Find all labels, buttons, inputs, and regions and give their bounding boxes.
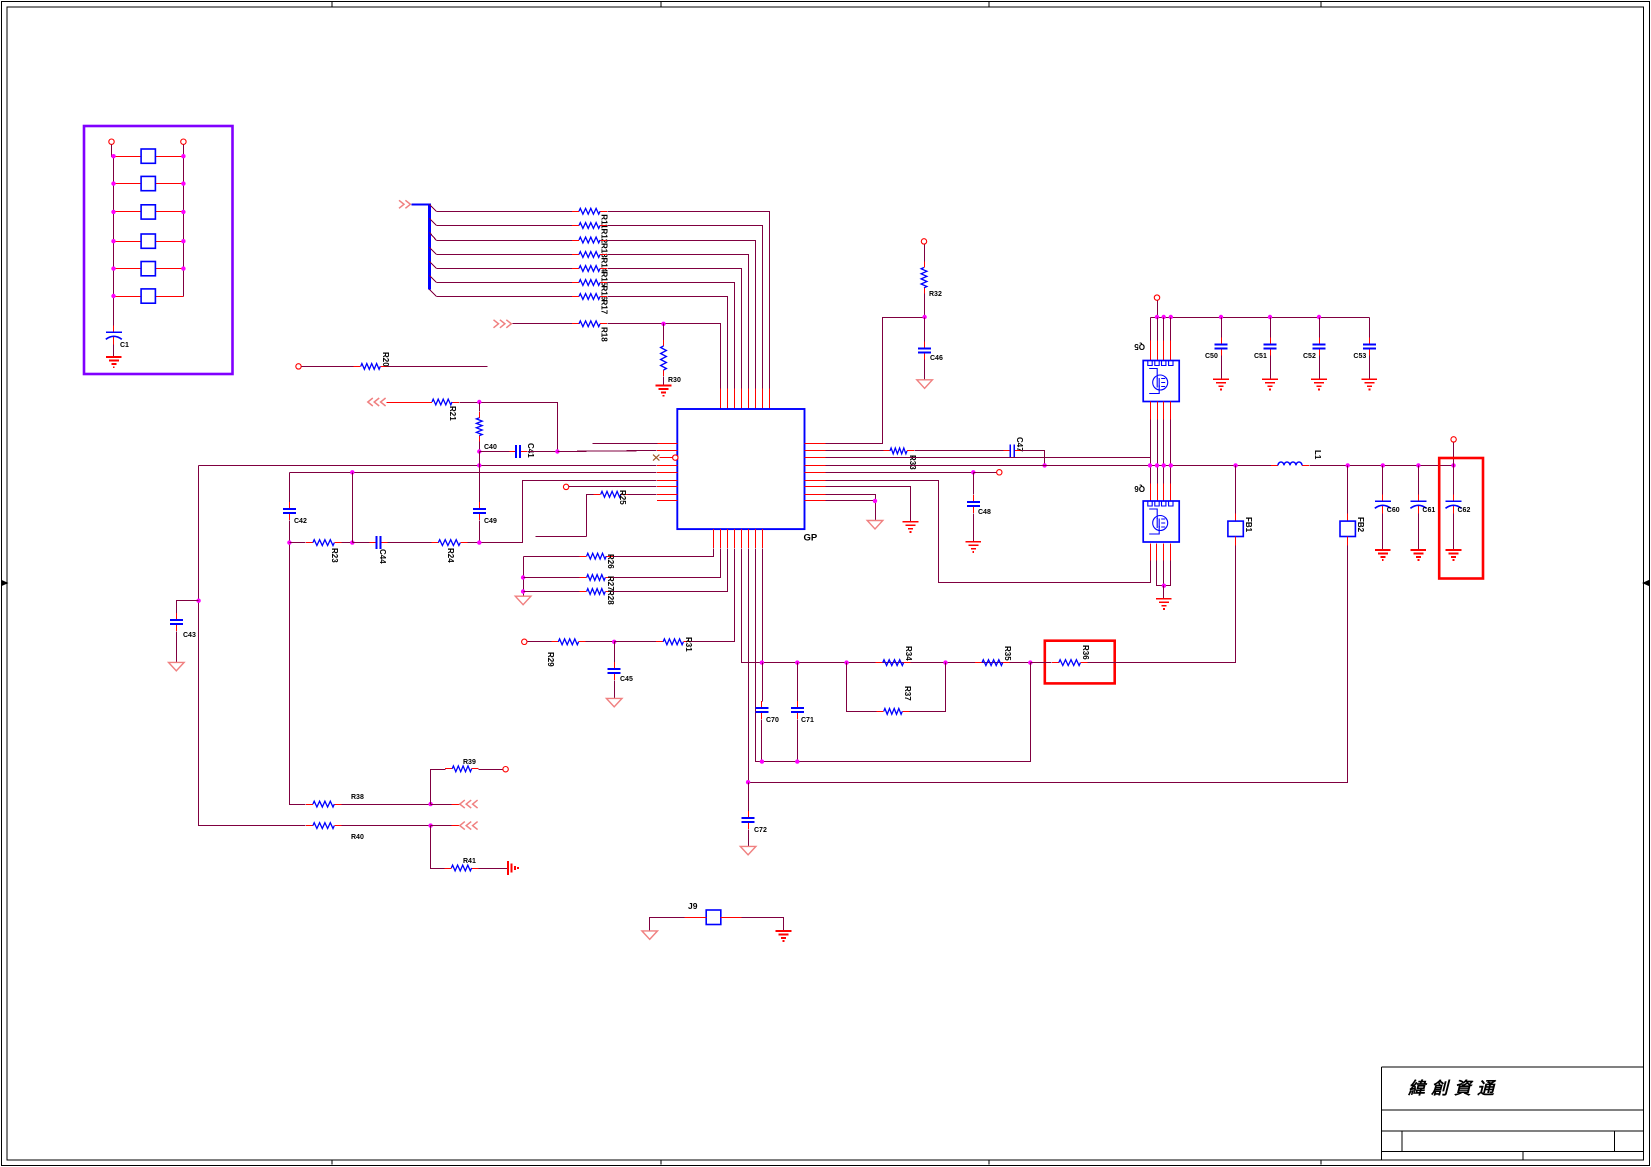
resistor R40 bbox=[306, 823, 341, 829]
svg-text:R11: R11 bbox=[600, 214, 609, 229]
wire Q5 col 1171 upper bbox=[1170, 318, 1172, 341]
svg-text:R20: R20 bbox=[381, 352, 390, 367]
ground rotated R41 bbox=[508, 861, 518, 875]
wire row825 chevron red bbox=[452, 825, 460, 827]
wire row472 to terminal bbox=[974, 472, 997, 474]
capacitor C60 (polarized) bbox=[1375, 494, 1391, 513]
purple highlight box bbox=[84, 126, 233, 374]
jumper pad J1-5 bbox=[141, 262, 155, 276]
wire ladder row 2 right bbox=[608, 226, 763, 389]
junction rail x1163 bbox=[1162, 315, 1166, 319]
wire row450 link bbox=[826, 450, 884, 452]
capacitor C72 bbox=[742, 811, 755, 829]
junction row543 left bbox=[287, 540, 291, 544]
wire rung 5 left red bbox=[114, 268, 142, 270]
wire loop left bbox=[847, 663, 877, 712]
wire x797 capup bbox=[797, 663, 799, 702]
port P1 chevrons >> bbox=[399, 200, 410, 208]
junction P2 row bbox=[661, 322, 665, 326]
wire ladder row 1 left bbox=[437, 211, 573, 213]
wire R39 to terminal bbox=[479, 769, 503, 771]
capacitor C41 (series) bbox=[509, 445, 527, 458]
wire Q5 col 1157 upper bbox=[1157, 318, 1159, 341]
jumper pad J1-3 bbox=[141, 205, 155, 219]
wire rung 4 left red bbox=[114, 241, 142, 243]
wire ladder row 5 left bbox=[437, 268, 573, 270]
wire Q6 gnd mid bbox=[1163, 561, 1165, 586]
terminal T3 bbox=[522, 639, 527, 644]
wire x748 lower bbox=[748, 783, 750, 812]
wire left column B lower bbox=[290, 521, 306, 805]
jumper pad J1-1 bbox=[141, 149, 155, 163]
capacitor C49 bbox=[473, 502, 486, 520]
wire row480R bbox=[826, 481, 1151, 583]
junction x924 bbox=[922, 315, 926, 319]
wire ladder row 1 pin stub bbox=[769, 389, 771, 410]
svg-text:J9: J9 bbox=[688, 901, 698, 911]
title block outline bbox=[1382, 1067, 1644, 1160]
svg-text:C1: C1 bbox=[120, 342, 129, 349]
wire loop right bbox=[910, 663, 946, 712]
junction row825 bbox=[428, 823, 432, 827]
wire bus PWR right bbox=[1310, 465, 1454, 467]
IC U1 bottom pin stubs bbox=[714, 529, 763, 548]
junction cap row left bbox=[477, 449, 481, 453]
wire Q5 col 1171 stub bbox=[1170, 341, 1172, 361]
wire rung 2 left red bbox=[114, 183, 142, 185]
resistor R28 bbox=[580, 589, 613, 595]
wire row472R bbox=[826, 472, 974, 474]
transistor Q5 bbox=[1143, 361, 1179, 402]
wire rail cap 4 drop bbox=[1369, 318, 1371, 338]
svg-text:R24: R24 bbox=[446, 548, 455, 563]
wire row494 to chip bbox=[628, 494, 657, 496]
wire row641 mid2 bbox=[615, 641, 657, 643]
wire Q6 in 1157 stub bbox=[1157, 484, 1159, 502]
wire rung 2 right red bbox=[156, 183, 184, 185]
svg-text:C43: C43 bbox=[183, 632, 196, 639]
wire row543 mid1 bbox=[342, 542, 353, 544]
capacitor C48 bbox=[967, 495, 980, 513]
wire Q6 in 1164 stub bbox=[1163, 484, 1165, 502]
wire P3 red lead bbox=[387, 402, 426, 404]
resistor R16 bbox=[572, 280, 607, 286]
ground pcap 2 bbox=[1446, 550, 1462, 560]
svg-text:R15: R15 bbox=[600, 272, 609, 287]
wire J9 right stub bbox=[721, 917, 742, 919]
ground below C46 (open) bbox=[917, 380, 933, 389]
terminal right rail top bbox=[181, 139, 186, 144]
ground x910 bbox=[903, 522, 919, 532]
junction bus FB1 bbox=[1233, 463, 1237, 467]
wire pin727 route bbox=[727, 549, 729, 592]
wire row641 right bbox=[691, 549, 735, 642]
wire C45 to ground bbox=[614, 681, 616, 699]
svg-text:GP: GP bbox=[804, 533, 818, 544]
wire P2 row left bbox=[513, 323, 573, 325]
wire rung 6 right red bbox=[156, 296, 184, 298]
wire FB2 stub bottom bbox=[1347, 537, 1349, 546]
jumper pad J1-2 bbox=[141, 176, 155, 190]
wire ladder row 7 left bbox=[437, 296, 573, 298]
wire R30 top bbox=[663, 324, 665, 341]
wire ladder row 3 pin stub bbox=[755, 389, 757, 410]
wire FB1 stub bottom bbox=[1235, 537, 1237, 546]
wire T2 to chip bbox=[569, 486, 657, 488]
wire Q5 col 1150 stub bbox=[1150, 341, 1152, 361]
terminal left rail top bbox=[109, 139, 114, 144]
bus entry wire 2 bbox=[430, 219, 437, 226]
wire C48 to ground bbox=[973, 514, 975, 542]
junction rung 4 left bbox=[111, 239, 115, 243]
bus entry wire 4 bbox=[430, 248, 437, 255]
ground rail cap 1 bbox=[1213, 379, 1229, 389]
junction row472 bbox=[971, 470, 975, 474]
capacitor C62 (polarized) bbox=[1446, 494, 1462, 513]
ground J9 right bbox=[776, 931, 792, 941]
wire C41 left link bbox=[480, 451, 510, 453]
junction rail cap 2 bbox=[1268, 315, 1272, 319]
junction bus x1044 bbox=[1042, 463, 1046, 467]
wire C45 link bbox=[614, 642, 616, 663]
resistor R32 (vertical) bbox=[921, 262, 927, 294]
wire J9 right bbox=[742, 918, 784, 931]
wire rung 3 left red bbox=[114, 211, 142, 213]
junction Q6 gnd bbox=[1162, 584, 1166, 588]
resistor R26 bbox=[580, 553, 614, 559]
svg-text:R27: R27 bbox=[606, 576, 615, 591]
capacitor C71 bbox=[791, 701, 804, 719]
wire Q5 out 1157 stub bbox=[1157, 402, 1159, 420]
wire row443R bbox=[826, 318, 925, 444]
wire row556 bbox=[524, 556, 580, 558]
wire C1 to ground bbox=[113, 345, 115, 358]
wire row804 chevron lead bbox=[431, 804, 452, 806]
svg-text:緯創資通: 緯創資通 bbox=[1407, 1079, 1500, 1098]
wire ladder row 4 right bbox=[608, 255, 749, 389]
svg-text:Q6: Q6 bbox=[1134, 484, 1145, 493]
resistor R18 bbox=[572, 321, 607, 327]
junction busC x748 bbox=[746, 780, 750, 784]
no-connect X mark bbox=[653, 455, 659, 461]
wire C46 to ground bbox=[924, 360, 926, 380]
resistor R30 (vertical) bbox=[661, 340, 667, 376]
jumper pad J1-4 bbox=[141, 234, 155, 248]
svg-text:C49: C49 bbox=[484, 518, 497, 525]
terminal T6 bbox=[1154, 295, 1159, 300]
wire pin741 route bbox=[742, 549, 756, 663]
ground below C72 (open) bbox=[740, 846, 756, 855]
wire bus B bbox=[762, 663, 1031, 762]
resistor R41 bbox=[444, 865, 478, 871]
bus entry wire 3 bbox=[430, 233, 437, 241]
wire row825 mid bbox=[342, 825, 431, 827]
wire J9 left stub bbox=[685, 917, 707, 919]
wire rung 1 right red bbox=[156, 156, 184, 158]
ferrite bead FB1 bbox=[1228, 521, 1243, 536]
svg-text:L1: L1 bbox=[1313, 450, 1322, 460]
resistor R33 bbox=[883, 448, 914, 454]
svg-text:R25: R25 bbox=[618, 490, 627, 505]
wire C49 down to row543 bbox=[479, 521, 481, 543]
wire row450 right bbox=[1022, 451, 1045, 466]
junction R21-R22 node bbox=[477, 400, 481, 404]
ground J9 left (open) bbox=[642, 931, 658, 940]
svg-text:R30: R30 bbox=[668, 377, 681, 384]
wire FB1 stub top bbox=[1235, 514, 1237, 522]
junction x523 row577 bbox=[521, 575, 525, 579]
capacitor C61 (polarized) bbox=[1410, 494, 1426, 513]
svg-text:Q5: Q5 bbox=[1134, 342, 1145, 351]
svg-text:R34: R34 bbox=[904, 646, 913, 661]
wire port P1 to bus (blue) bbox=[412, 204, 430, 206]
resistor R35 bbox=[975, 660, 1010, 666]
junction busB x761 bbox=[760, 759, 764, 763]
wire T6 down bbox=[1157, 301, 1159, 318]
svg-text:C44: C44 bbox=[378, 549, 387, 564]
wire R20 right dangling bbox=[388, 366, 488, 368]
junction rung 3 left bbox=[111, 210, 115, 214]
port P2 chevrons >>> bbox=[494, 320, 512, 328]
wire rail cap 3 drop bbox=[1319, 318, 1321, 338]
wire row804 chevron red bbox=[452, 804, 460, 806]
ground below C45 (open) bbox=[606, 698, 622, 707]
svg-text:R23: R23 bbox=[330, 548, 339, 563]
wire Q6 in 1150 stub bbox=[1150, 484, 1152, 502]
junction rung 2 left bbox=[111, 181, 115, 185]
wire vertical x352 bbox=[352, 473, 354, 543]
wire Q5 out 1171 stub bbox=[1170, 402, 1172, 420]
wire FB2 down to bus bbox=[749, 546, 1348, 783]
wire bus A bbox=[756, 662, 1031, 664]
wire Q6 out 1156 stub bbox=[1156, 544, 1158, 561]
junction cap row right bbox=[555, 449, 559, 453]
wire left column B bbox=[289, 473, 291, 503]
wire row591 bbox=[524, 591, 580, 593]
ground below C43 (open) bbox=[169, 662, 185, 671]
wire C43 to ground bbox=[176, 632, 178, 663]
resistor R36 bbox=[1052, 660, 1088, 666]
wire Q5 col 1164 upper bbox=[1163, 318, 1165, 341]
wire Q6 pin1 stub bbox=[1150, 544, 1152, 561]
junction bus cap 2 bbox=[1451, 463, 1455, 467]
wire FB1 down to bus bbox=[1088, 546, 1236, 663]
svg-text:C53: C53 bbox=[1353, 353, 1366, 360]
svg-text:C48: C48 bbox=[978, 509, 991, 516]
junction rung 3 right bbox=[181, 210, 185, 214]
svg-text:R17: R17 bbox=[600, 300, 609, 315]
wire busA redbox left bbox=[1031, 662, 1052, 664]
svg-text:R21: R21 bbox=[448, 406, 457, 421]
wire R30 to ground bbox=[663, 377, 665, 386]
junction busA x945 bbox=[943, 660, 947, 664]
junction rung 5 right bbox=[181, 266, 185, 270]
wire T1 to R20 bbox=[302, 366, 354, 368]
wire cap row right bbox=[528, 451, 558, 453]
svg-text:R29: R29 bbox=[546, 652, 555, 667]
wire C72 to ground bbox=[748, 830, 750, 847]
capacitor C50 bypass bbox=[1215, 338, 1228, 356]
wire row494 left bbox=[587, 495, 594, 537]
resistor R31 bbox=[656, 639, 690, 645]
wire pcap 1 to ground bbox=[1418, 514, 1420, 550]
svg-text:C40: C40 bbox=[484, 444, 497, 451]
svg-text:R14: R14 bbox=[600, 258, 609, 273]
junction x875 bbox=[873, 499, 877, 503]
jumper pad J1-6 bbox=[141, 289, 155, 303]
wire rail 317 bbox=[1151, 317, 1370, 319]
svg-text:C47: C47 bbox=[1015, 437, 1024, 452]
svg-text:R13: R13 bbox=[600, 243, 609, 258]
svg-text:FB1: FB1 bbox=[1244, 517, 1253, 533]
wire bus VREF1 bbox=[199, 465, 657, 467]
terminal T4 bbox=[921, 239, 926, 244]
frame left centre arrow bbox=[2, 581, 8, 585]
wire Q5 col 1157 stub bbox=[1157, 341, 1159, 361]
wire row457R bbox=[826, 457, 1151, 459]
IC U1 left pin stubs bbox=[657, 444, 677, 501]
junction bus col 1171 bbox=[1169, 463, 1173, 467]
wire ladder row 7 pin stub bbox=[727, 389, 729, 410]
terminal T8 bbox=[503, 767, 508, 772]
ground rail cap 3 bbox=[1311, 379, 1327, 389]
wire bus PWR bbox=[826, 465, 1272, 467]
junction rail cap 1 bbox=[1219, 315, 1223, 319]
red highlight box busA bbox=[1045, 641, 1115, 684]
wire pcap 1 drop bbox=[1418, 466, 1420, 495]
wire ladder row 4 pin stub bbox=[748, 389, 750, 410]
ground rail cap 4 bbox=[1362, 379, 1378, 389]
resistor R29 bbox=[551, 639, 585, 645]
IC U1 right pin stubs bbox=[805, 444, 826, 501]
resistor R15 bbox=[572, 266, 607, 272]
wire row494R bbox=[826, 495, 876, 521]
junction rail x1170 bbox=[1169, 315, 1173, 319]
resistor R24 bbox=[431, 540, 467, 546]
wire pin734 route bbox=[734, 549, 736, 642]
junction rung 1 left bbox=[111, 154, 115, 158]
resistor R37 bbox=[877, 709, 910, 715]
frame zone tick marks bbox=[332, 2, 1321, 1165]
capacitor C45 bbox=[608, 662, 621, 680]
svg-text:C42: C42 bbox=[294, 518, 307, 525]
svg-text:C61: C61 bbox=[1422, 507, 1435, 514]
capacitor C53 bypass bbox=[1363, 338, 1376, 356]
svg-text:C41: C41 bbox=[526, 443, 535, 458]
wire pin762 route bbox=[762, 549, 764, 699]
wire x762 caplink bbox=[762, 663, 764, 702]
capacitor C70 bbox=[755, 701, 768, 719]
terminal T7 bbox=[1451, 437, 1456, 442]
svg-text:R28: R28 bbox=[606, 590, 615, 605]
resistor R12 bbox=[572, 223, 607, 229]
wire Q5-Q6 col 1171 bbox=[1170, 420, 1172, 484]
wire ladder row 1 right bbox=[608, 212, 770, 389]
wire Q5-Q6 col 1157 bbox=[1157, 420, 1159, 484]
no-connect terminal circle bbox=[673, 455, 678, 460]
capacitor C1 (polarized) bbox=[106, 325, 122, 344]
svg-text:C62: C62 bbox=[1458, 507, 1471, 514]
junction busB x797 bbox=[795, 759, 799, 763]
wire cap 1 to ground bbox=[1221, 356, 1223, 380]
wire rung 6 left red bbox=[114, 296, 142, 298]
wire ladder row 3 left bbox=[437, 240, 573, 242]
wire row443 dangling bbox=[593, 443, 658, 445]
wire left vertical rail bbox=[113, 157, 115, 326]
junction rung 4 right bbox=[181, 239, 185, 243]
resistor R34 bbox=[876, 660, 911, 666]
capacitor C52 bypass bbox=[1313, 338, 1326, 356]
resistor R23 bbox=[306, 540, 341, 546]
resistor R38 bbox=[306, 801, 341, 807]
wire Q5 col 1150 upper bbox=[1150, 318, 1152, 341]
wire ladder row 3 right bbox=[608, 241, 756, 389]
capacitor C43 bbox=[170, 613, 183, 631]
wire Q5-Q6 col 1164 bbox=[1163, 420, 1165, 484]
junction bus VREF1 x479 bbox=[477, 463, 481, 467]
junction bus cap 1 bbox=[1416, 463, 1420, 467]
wire rung 1 left red bbox=[114, 156, 142, 158]
resistor R11 bbox=[572, 208, 607, 214]
wire rung 4 right red bbox=[156, 241, 184, 243]
wire Q5 col 1164 stub bbox=[1163, 341, 1165, 361]
wire left rail bbox=[112, 145, 114, 157]
wire row536 dangling bbox=[536, 536, 587, 538]
svg-text:C60: C60 bbox=[1387, 507, 1400, 514]
svg-text:R16: R16 bbox=[600, 286, 609, 301]
wire R32 to junction bbox=[924, 294, 926, 318]
ground pcap 0 bbox=[1375, 550, 1391, 560]
junction bus FB2 bbox=[1346, 463, 1350, 467]
wire cap 3 to ground bbox=[1319, 356, 1321, 380]
capacitor C46 bbox=[918, 342, 931, 360]
wire x973 down bbox=[973, 473, 975, 495]
resistor R25 bbox=[594, 491, 628, 497]
frame right centre arrow bbox=[1644, 581, 1650, 585]
svg-text:C72: C72 bbox=[754, 827, 767, 834]
port P3 chevrons <<< bbox=[368, 398, 386, 406]
junction x523 row591 bbox=[521, 589, 525, 593]
wire ladder row 2 left bbox=[437, 225, 573, 227]
junction busA x1030 bbox=[1028, 660, 1032, 664]
wire pin748 route bbox=[748, 549, 750, 783]
svg-text:C50: C50 bbox=[1205, 353, 1218, 360]
ground below Q6 bbox=[1156, 599, 1172, 609]
junction row804 bbox=[428, 802, 432, 806]
capacitor C42 bbox=[283, 502, 296, 520]
inductor L1 bbox=[1271, 462, 1309, 465]
wire Q6 gnd tie bbox=[1157, 561, 1171, 586]
svg-text:R12: R12 bbox=[600, 229, 609, 244]
wire rung 5 right red bbox=[156, 268, 184, 270]
wire rail cap 1 drop bbox=[1221, 318, 1223, 338]
junction row543 x479 bbox=[477, 540, 481, 544]
ground x875 (open) bbox=[867, 521, 883, 530]
junction bus VREF2 x352 bbox=[350, 470, 354, 474]
bus entry wire 1 bbox=[430, 205, 437, 212]
wire pcap 2 to ground bbox=[1453, 514, 1455, 550]
wire cap row to chip bbox=[558, 451, 657, 452]
wire pin720 route bbox=[720, 549, 722, 578]
wire row804 mid bbox=[342, 804, 431, 806]
resistor R39 bbox=[445, 766, 478, 772]
wire left column A bbox=[199, 466, 306, 826]
wire row591 right bbox=[613, 549, 728, 592]
resistor R17 bbox=[572, 294, 607, 300]
bus entry wire 6 bbox=[430, 276, 437, 283]
wire row825 chevron lead bbox=[431, 825, 452, 827]
wire vertical 479 across bbox=[479, 452, 481, 503]
